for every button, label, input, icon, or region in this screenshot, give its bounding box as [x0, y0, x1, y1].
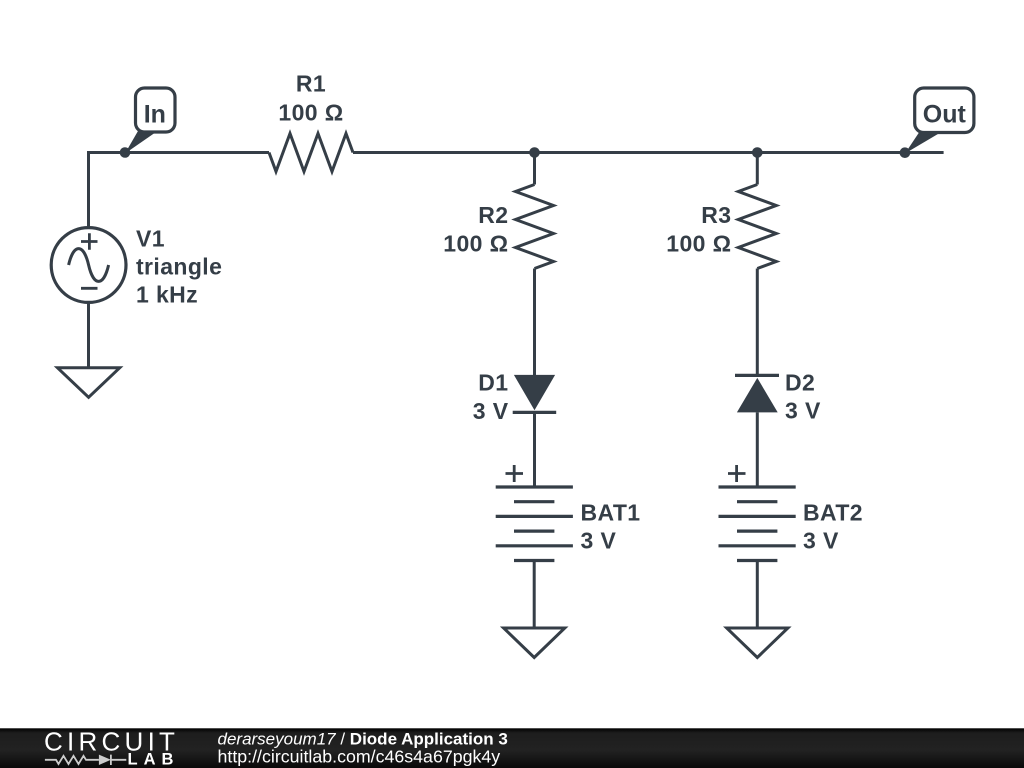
ground below V1: [58, 368, 120, 398]
svg-text:D2: D2: [785, 370, 815, 396]
resistor R2: [516, 185, 554, 269]
battery BAT2 plates: [719, 487, 796, 561]
svg-text:1 kHz: 1 kHz: [136, 282, 198, 308]
title bar background: [0, 728, 1024, 768]
svg-text:R2: R2: [478, 202, 508, 228]
wire BAT1 to ground: [533, 561, 536, 629]
wire D2 to BAT2: [756, 412, 759, 487]
wire V1 to ground: [87, 302, 90, 367]
resistor R3: [738, 185, 776, 269]
wire node to R2: [533, 153, 536, 185]
wire D1 to BAT1: [533, 412, 536, 487]
svg-text:3 V: 3 V: [581, 528, 617, 554]
wire BAT2 to ground: [756, 561, 759, 629]
battery BAT2 plus sign: [728, 465, 746, 482]
wire main horizontal left of R1: [89, 151, 270, 154]
svg-text:http://circuitlab.com/c46s4a67: http://circuitlab.com/c46s4a67pgk4y: [218, 746, 501, 766]
svg-text:BAT1: BAT1: [581, 500, 641, 526]
battery BAT1 plates: [496, 487, 573, 561]
node Out flag tail: [905, 131, 943, 154]
battery BAT1 plus sign: [506, 465, 524, 482]
diode D2 cathode bar: [735, 374, 779, 377]
svg-text:3 V: 3 V: [803, 528, 839, 554]
svg-text:D1: D1: [478, 370, 508, 396]
svg-text:R1: R1: [296, 71, 326, 97]
svg-text:100 Ω: 100 Ω: [666, 231, 731, 257]
svg-text:3 V: 3 V: [473, 398, 509, 424]
CircuitLab logo resistor-diode symbol: [45, 755, 126, 765]
ground below BAT1: [504, 628, 565, 658]
wire In vertical to V1: [87, 151, 90, 228]
diode D1 triangle: [514, 375, 555, 410]
svg-text:BAT2: BAT2: [803, 500, 863, 526]
svg-text:100 Ω: 100 Ω: [278, 100, 343, 126]
node In flag tail: [125, 131, 158, 154]
wire main horizontal right of R1: [353, 151, 944, 154]
svg-text:100 Ω: 100 Ω: [443, 231, 508, 257]
svg-text:LAB: LAB: [128, 751, 180, 768]
svg-text:triangle: triangle: [136, 254, 222, 280]
node In junction dot: [120, 147, 131, 158]
ground below BAT2: [727, 628, 788, 658]
node Out flag box: [915, 88, 974, 133]
svg-text:In: In: [144, 100, 166, 128]
node Out junction dot: [900, 147, 911, 158]
svg-text:Out: Out: [923, 100, 967, 128]
wire R2 to D1: [533, 269, 536, 376]
diode D1 cathode bar: [513, 411, 557, 414]
voltage source V1: [51, 228, 126, 303]
resistor R1: [269, 134, 353, 172]
node In flag box: [136, 88, 176, 132]
svg-text:3 V: 3 V: [785, 398, 821, 424]
wire node to R3: [756, 153, 759, 185]
svg-text:R3: R3: [701, 202, 731, 228]
svg-text:V1: V1: [136, 226, 165, 252]
wire R3 to D2: [756, 269, 759, 376]
diode D2 triangle: [737, 378, 778, 413]
node R2 junction dot: [529, 147, 540, 158]
node R3 junction dot: [752, 147, 763, 158]
